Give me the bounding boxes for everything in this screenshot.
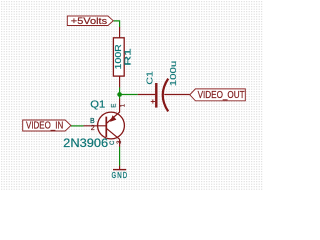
svg-text:C: C	[110, 140, 116, 145]
svg-text:E: E	[112, 104, 118, 108]
svg-text:100u: 100u	[168, 60, 178, 86]
svg-text:VIDEO_OUT: VIDEO_OUT	[198, 90, 245, 101]
svg-text:C1: C1	[146, 70, 155, 84]
svg-text:VIDEO_IN: VIDEO_IN	[26, 121, 63, 132]
svg-text:+5Volts: +5Volts	[71, 16, 108, 26]
svg-text:R1: R1	[123, 48, 133, 66]
svg-text:D: D	[123, 170, 127, 180]
svg-text:2N3906: 2N3906	[63, 136, 108, 150]
svg-text:N: N	[117, 170, 121, 180]
svg-text:Q1: Q1	[90, 100, 105, 111]
svg-text:G: G	[112, 170, 117, 180]
svg-text:B: B	[90, 118, 95, 125]
svg-text:2: 2	[91, 125, 95, 132]
